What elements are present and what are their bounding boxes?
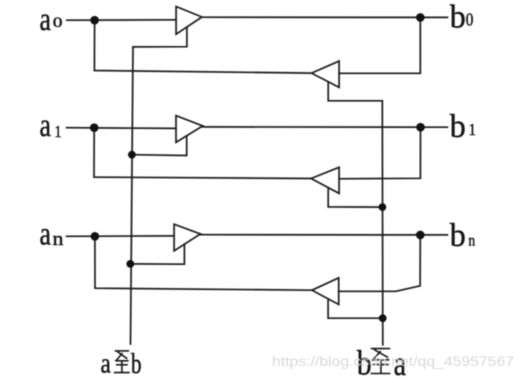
node a0 junction <box>90 16 99 25</box>
svg-text:n: n <box>53 229 64 249</box>
svg-text:1: 1 <box>469 121 476 139</box>
wire enable U4 to right bus <box>328 82 382 101</box>
label b-to-a : zhi glyph <box>371 349 391 374</box>
wire enable U1 to left bus <box>133 27 187 47</box>
wire return row3 vertical from node an <box>95 236 312 290</box>
wire row3 input an to buffer <box>67 235 175 237</box>
wire enable U3 to left bus <box>130 244 184 264</box>
node bn junction <box>416 231 425 240</box>
wire enable U5 to right bus <box>328 188 382 207</box>
label b1 <box>450 109 476 146</box>
op-amp buffer U4 b-to-a row1 <box>312 61 340 87</box>
svg-text:a: a <box>40 2 51 38</box>
svg-text:a: a <box>40 217 51 253</box>
node right bus row3 junction <box>379 314 387 322</box>
wire right enable bus b-to-a <box>381 101 384 345</box>
svg-text:0: 0 <box>466 9 474 29</box>
svg-text:b: b <box>450 0 466 35</box>
node left bus row3 junction <box>126 260 134 268</box>
node b0 junction <box>416 13 425 22</box>
svg-text:b: b <box>131 349 142 380</box>
node an junction <box>91 232 100 241</box>
op-amp buffer U6 b-to-a row3 <box>312 278 339 305</box>
wire row2 input a1 to buffer <box>67 127 176 130</box>
svg-text:b: b <box>450 109 466 146</box>
label a-to-b : zhi glyph <box>114 351 130 373</box>
label an <box>40 217 64 253</box>
op-amp buffer U3 a-to-b row3 <box>174 224 200 251</box>
wire enable U6 to right bus <box>328 299 383 318</box>
label bn <box>450 217 476 254</box>
wire drive row1 vertical from node b0 <box>339 17 420 73</box>
node b1 junction <box>416 123 425 132</box>
wire left enable bus a-to-b <box>131 47 134 344</box>
wire enable U2 to left bus <box>132 136 187 156</box>
node right bus row2 junction <box>379 203 387 211</box>
svg-text:0: 0 <box>53 14 63 30</box>
wire return row1 vertical from node a0 <box>94 20 311 73</box>
svg-text:n: n <box>468 233 475 250</box>
svg-text:b: b <box>450 217 466 254</box>
label b0 <box>450 0 474 35</box>
wire return row2 vertical from node a1 <box>94 128 311 179</box>
op-amp buffer U5 b-to-a row2 <box>311 167 339 193</box>
label a1 <box>40 108 62 144</box>
wire drive row2 vertical from node b1 <box>339 127 420 179</box>
svg-text:a: a <box>101 347 112 379</box>
label a0 <box>40 2 63 38</box>
node left bus row2 junction <box>128 151 136 159</box>
op-amp buffer U1 a-to-b row1 <box>176 7 202 35</box>
svg-text:a: a <box>40 108 51 144</box>
svg-text:https://blog.csdn.net/qq_45957: https://blog.csdn.net/qq_45957567 <box>272 354 514 369</box>
wire row1 buffer output to b0 <box>202 16 448 18</box>
wire row1 input a0 to buffer <box>67 19 176 21</box>
svg-text:1: 1 <box>54 123 61 141</box>
wire drive row3 vertical from node bn <box>339 235 421 291</box>
node a1 junction <box>90 123 99 132</box>
wire row3 buffer output to bn <box>200 234 447 236</box>
wire row2 buffer output to b1 <box>203 126 448 128</box>
op-amp buffer U2 a-to-b row2 <box>176 116 203 143</box>
